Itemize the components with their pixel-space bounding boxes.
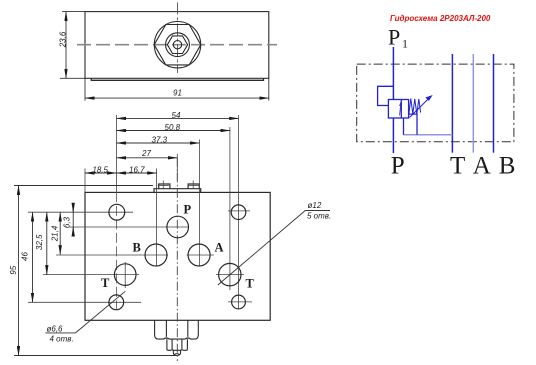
hole bottom-right [232, 295, 246, 309]
top view bottom plate line [91, 78, 263, 80]
dim 21,4 line [59, 212, 61, 254]
dim 37,3 [117, 142, 200, 144]
tick A hole [187, 254, 215, 256]
svg-text:6,3: 6,3 [62, 216, 71, 228]
dim 27 [117, 157, 178, 159]
svg-text:B: B [499, 153, 516, 180]
svg-text:18,5: 18,5 [92, 165, 108, 174]
extension col x117 above block [116, 115, 118, 192]
boss bump 1 [159, 184, 170, 189]
svg-text:91: 91 [173, 89, 182, 98]
dim 46 line [32, 212, 34, 302]
extension col x229.9 (T right) [229, 127, 231, 290]
step3 tip [173, 350, 180, 355]
svg-text:T: T [246, 277, 255, 291]
top view horizontal centerline [77, 44, 277, 46]
bottom protrusion step1 hex nut [155, 320, 199, 339]
dim 32,5 line [46, 212, 48, 274]
svg-text:T: T [450, 153, 465, 180]
hex plug center circle [173, 41, 181, 49]
main block outline [85, 192, 270, 320]
pilot loop [378, 86, 394, 105]
hex plug chamfer circle [166, 33, 190, 57]
svg-text:23,6: 23,6 [59, 31, 68, 48]
dim 23,6 extension lines [62, 11, 85, 13]
tick bottom right hole [228, 301, 252, 303]
svg-text:27: 27 [141, 149, 151, 158]
hex plug outer hexagon [154, 25, 201, 65]
hole B [145, 244, 167, 266]
svg-text:B: B [133, 241, 141, 255]
hole P [167, 216, 189, 238]
schematic boundary box [357, 64, 514, 142]
adjust arrow [410, 99, 428, 117]
boss bump 2 [188, 184, 199, 189]
dim 91 line [85, 97, 269, 99]
bump2 cross [192, 181, 194, 189]
dim 18,5 [85, 172, 117, 174]
svg-text:32,5: 32,5 [35, 234, 44, 250]
svg-text:ø6,6: ø6,6 [47, 325, 64, 334]
row line bottom holes [28, 301, 141, 303]
valve flow arrow [400, 103, 401, 116]
T line [451, 54, 453, 153]
row line hole1 [28, 211, 133, 213]
dim 54 [117, 117, 239, 119]
dim 6,3 line [72, 207, 74, 233]
top boss [154, 189, 201, 193]
hole top-right [231, 205, 246, 220]
step2 small nut [167, 339, 188, 350]
tick T left vertical [124, 262, 126, 288]
svg-text:46: 46 [20, 252, 29, 261]
tick T right hole [216, 274, 244, 276]
svg-text:A: A [473, 153, 491, 180]
svg-text:1: 1 [402, 37, 408, 51]
svg-text:50,8: 50,8 [165, 123, 181, 132]
leader d12 [218, 211, 305, 286]
extension centerline up [176, 154, 178, 180]
drain line light [404, 134, 453, 136]
dim 50,8 [117, 130, 230, 132]
dim 23,6 line [65, 12, 67, 79]
A line dark [493, 54, 495, 153]
svg-text:21,4: 21,4 [50, 225, 59, 242]
svg-text:P: P [184, 202, 192, 216]
svg-text:P: P [388, 24, 400, 49]
extension col x156.6 (B) [156, 169, 158, 267]
bump1 cross [162, 181, 164, 189]
P line [392, 47, 394, 100]
tick top right hole [228, 210, 250, 212]
hole top-left [109, 204, 125, 220]
hole T right [219, 263, 241, 285]
top view vertical centerline [177, 3, 179, 74]
svg-text:Гидросхема 2Р203АЛ-200: Гидросхема 2Р203АЛ-200 [390, 14, 491, 23]
svg-text:4 отв.: 4 отв. [50, 335, 74, 344]
ext 95 bottom [14, 355, 176, 357]
svg-text:95: 95 [9, 265, 18, 274]
svg-text:T: T [101, 276, 110, 290]
ext 95 top [14, 185, 153, 187]
light middle line [472, 54, 474, 153]
svg-text:37,3: 37,3 [152, 135, 168, 144]
spring [409, 99, 421, 115]
dim 16,7 [117, 172, 157, 174]
hex socket hexagon [167, 36, 187, 54]
hole column centerline left [116, 192, 118, 309]
hole T left [114, 264, 136, 286]
hex plug outer circle [154, 22, 200, 68]
svg-text:P: P [391, 153, 405, 180]
row line B [56, 254, 168, 256]
row line P (6,3) [69, 226, 189, 228]
top view block outline [85, 12, 269, 79]
extension col x238.5 [238, 115, 240, 309]
svg-text:5 отв.: 5 отв. [307, 212, 331, 221]
extension col x199.4 (A) [198, 140, 200, 267]
svg-text:ø12: ø12 [308, 201, 322, 210]
relief valve body [388, 100, 408, 119]
svg-text:A: A [215, 241, 224, 255]
extension block left edge up [84, 169, 86, 193]
leader d6,6 [76, 291, 126, 333]
main vertical centerline [176, 158, 178, 361]
hole A [188, 244, 210, 266]
row line T left [43, 274, 139, 276]
svg-text:54: 54 [172, 111, 181, 120]
hole bottom-left [109, 295, 124, 310]
drain stub [403, 118, 405, 135]
dim 95 line [18, 186, 20, 356]
dim 91 extension lines [84, 78, 86, 100]
svg-text:16,7: 16,7 [129, 165, 145, 174]
